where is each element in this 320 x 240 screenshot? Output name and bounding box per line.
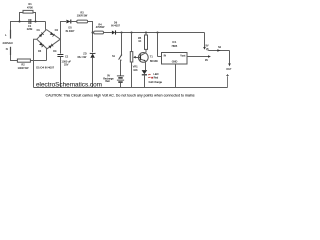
node junction R5 <box>145 32 147 34</box>
diode D2 <box>50 32 55 37</box>
svg-text:T1: T1 <box>150 55 154 58</box>
svg-text:7805: 7805 <box>171 44 177 48</box>
svg-text:100R 5W: 100R 5W <box>18 66 29 70</box>
wire N line <box>11 55 18 61</box>
svg-text:N: N <box>6 47 8 51</box>
resistor R4 <box>94 31 104 34</box>
svg-text:230VAC: 230VAC <box>3 41 14 45</box>
svg-text:S2: S2 <box>218 46 222 49</box>
svg-text:470/5W: 470/5W <box>96 26 105 29</box>
svg-text:D2: D2 <box>55 29 59 32</box>
node junction IC in <box>157 32 159 34</box>
transistor T1 <box>138 53 148 71</box>
svg-text:R2: R2 <box>21 63 25 67</box>
resistor R2 <box>17 59 30 62</box>
diode D5 <box>66 20 76 24</box>
capacitor C2 <box>57 55 63 88</box>
switch S1 <box>119 33 123 76</box>
node L terminal <box>10 30 12 39</box>
svg-text:470K: 470K <box>27 6 33 10</box>
diode D6 <box>112 30 116 34</box>
svg-text:D1: D1 <box>37 29 41 32</box>
potentiometer VR1 <box>130 33 140 88</box>
svg-text:S1: S1 <box>112 55 116 58</box>
bottom rail <box>34 87 228 89</box>
svg-text:9V: 9V <box>206 45 209 48</box>
wire DC minus from left vertex <box>34 39 37 87</box>
svg-text:9V: 9V <box>205 59 208 62</box>
wire DC plus vertical right vertex <box>61 22 67 40</box>
plus terminal battery out <box>226 74 229 87</box>
svg-text:D3: D3 <box>38 50 42 53</box>
svg-text:IN 4007: IN 4007 <box>111 25 120 28</box>
svg-text:IN: IN <box>164 55 167 58</box>
bridge rectifier diamond <box>37 30 61 49</box>
LED <box>142 70 151 87</box>
svg-text:R1: R1 <box>28 2 32 6</box>
svg-text:25V: 25V <box>64 63 69 66</box>
capacitor C1 <box>29 19 31 24</box>
label Red with bullet <box>151 77 153 79</box>
svg-text:Batt: Batt <box>105 80 110 83</box>
svg-text:D4: D4 <box>53 50 57 53</box>
wire C2 top lead <box>60 39 62 53</box>
node junction VR1 <box>131 32 133 34</box>
wire main top L line <box>11 22 46 31</box>
wire bridge bottom stub <box>46 48 48 60</box>
svg-text:15v 1W: 15v 1W <box>77 55 87 59</box>
svg-text:Full Charge: Full Charge <box>149 80 163 84</box>
svg-text:226k: 226k <box>27 27 33 31</box>
wire N line right of R2 <box>30 60 46 62</box>
resistor R3 <box>77 20 94 52</box>
node junction S1 <box>121 32 123 34</box>
svg-text:Red: Red <box>154 77 159 80</box>
diode D1 <box>39 33 44 38</box>
svg-text:IC1: IC1 <box>172 40 177 44</box>
resistor R1 <box>19 10 37 22</box>
svg-text:CAUTION: This Circuit carries: CAUTION: This Circuit carries High Volt … <box>46 94 195 98</box>
svg-text:electroSchematics.com: electroSchematics.com <box>36 81 102 88</box>
svg-text:1K: 1K <box>138 40 141 43</box>
svg-text:Vout: Vout <box>180 55 185 58</box>
diode D3 <box>39 42 44 47</box>
svg-text:L: L <box>5 33 7 37</box>
output wire to battery connector <box>208 49 231 66</box>
svg-text:BD139: BD139 <box>150 60 158 63</box>
svg-text:100R 5W: 100R 5W <box>77 15 88 18</box>
IC1 box <box>158 33 211 88</box>
9V arrow from rail <box>203 33 208 51</box>
svg-text:LED: LED <box>153 72 158 76</box>
svg-text:C2: C2 <box>65 55 69 58</box>
svg-text:10K: 10K <box>133 69 138 72</box>
svg-text:OUT: OUT <box>226 68 232 71</box>
diode D4 <box>48 44 53 49</box>
resistor R5 <box>145 33 148 53</box>
battery B1 <box>117 76 124 88</box>
wire main DC rail y32 <box>93 32 94 34</box>
wire rail D6 to corner <box>116 32 205 34</box>
svg-text:D1-D4 IN 4007: D1-D4 IN 4007 <box>36 66 54 70</box>
wire apex drop <box>45 22 47 30</box>
zener ZD <box>90 53 95 88</box>
svg-text:GND: GND <box>172 61 178 64</box>
wire R4 to D6 <box>104 32 112 34</box>
svg-text:IN 4007: IN 4007 <box>66 30 75 33</box>
node N terminal <box>10 47 12 55</box>
